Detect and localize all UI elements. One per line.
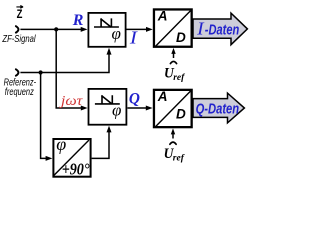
svg-text:φ: φ <box>112 24 121 43</box>
sawtooth symbol phase detector 1 <box>94 18 119 27</box>
svg-text:I: I <box>129 28 139 48</box>
svg-text:ref: ref <box>173 154 185 164</box>
wire reference branch down to +90 shifter <box>41 73 47 159</box>
diagonal AD 2 <box>155 91 190 127</box>
connector U_ref bottom <box>170 142 176 144</box>
svg-text:-Daten: -Daten <box>205 21 240 38</box>
svg-text:A: A <box>157 89 168 104</box>
svg-text:frequenz: frequenz <box>5 86 35 98</box>
connector U_ref top <box>170 61 176 63</box>
svg-text:ref: ref <box>173 73 185 83</box>
phase detector box 2 (Q mixer) <box>89 89 127 125</box>
svg-text:R: R <box>72 12 84 29</box>
arrowhead into +90 shifter <box>46 156 53 161</box>
arrowhead up into phase detector 1 <box>107 48 112 55</box>
arrowhead up into phase detector 2 <box>107 126 112 133</box>
wire ZF horizontal to phase detector 1 <box>20 28 81 30</box>
junction dot ZF branch <box>54 27 58 31</box>
+90 degree phase shifter box <box>53 139 90 177</box>
wire ZF branch down to Q phase detector <box>56 29 82 108</box>
AD converter box 1 <box>154 9 192 46</box>
wire phase detector 2 output to AD 2 <box>127 107 147 109</box>
svg-text:Q-Daten: Q-Daten <box>196 100 240 117</box>
arrowhead into AD 2 <box>146 106 153 111</box>
wire reference to phase detector 1 bottom input <box>20 53 109 73</box>
svg-text:+90°: +90° <box>62 160 90 179</box>
arrowhead at Q phase detector input <box>81 106 88 111</box>
U_ref arrow into AD 2 <box>172 134 174 139</box>
connector reference frequency input <box>16 69 19 75</box>
connector ZF-Signal input <box>16 26 19 32</box>
svg-text:Q: Q <box>129 91 140 108</box>
wire phase detector 1 output to AD 1 <box>126 28 147 30</box>
svg-text:jωτ: jωτ <box>59 94 84 109</box>
svg-text:φ: φ <box>112 101 121 120</box>
arrowhead at R input <box>81 27 88 32</box>
arrowhead into AD 1 <box>146 27 153 32</box>
phase detector box 1 (I mixer) <box>88 13 125 47</box>
sawtooth symbol phase detector 2 <box>95 95 120 104</box>
svg-text:Z: Z <box>17 7 23 21</box>
junction dot reference branch <box>39 70 43 74</box>
diagonal +90 box <box>54 140 89 175</box>
svg-text:φ: φ <box>56 134 66 154</box>
wire +90 output to phase detector 2 bottom input <box>92 131 109 158</box>
Q-Daten block arrow <box>193 93 244 123</box>
U_ref arrow into AD 1 <box>173 54 175 59</box>
label Z vector (input signal) <box>16 6 23 21</box>
I-Daten block arrow <box>193 13 247 45</box>
svg-text:A: A <box>157 9 168 24</box>
svg-text:ZF-Signal: ZF-Signal <box>2 33 36 45</box>
svg-text:D: D <box>176 106 186 121</box>
AD converter box 2 <box>154 90 192 127</box>
diagonal AD 1 <box>155 11 190 47</box>
svg-text:I: I <box>196 19 205 39</box>
svg-text:D: D <box>176 30 186 45</box>
